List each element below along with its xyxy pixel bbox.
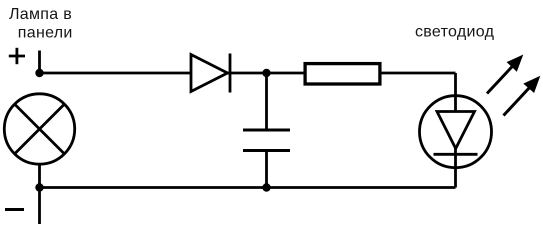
LED light arrow 2 [504, 76, 541, 116]
node D (junction at lamp bottom) [35, 183, 43, 191]
wire: right vertical (LED branch) [454, 73, 457, 188]
diode VD1 [191, 54, 230, 93]
label "Лампа в панели" [9, 6, 73, 42]
wire: bottom supply stub [38, 188, 41, 225]
resistor R1 [305, 64, 380, 84]
node B (junction bottom of capacitor) [262, 183, 270, 191]
wire: top horizontal rail [40, 72, 456, 75]
node C (junction at lamp top) [35, 69, 43, 77]
capacitor C1 [243, 73, 290, 188]
LED HL1 [420, 96, 492, 168]
node A (junction top of capacitor) [262, 69, 270, 77]
wire: bottom horizontal rail [40, 186, 456, 189]
svg-text:светодиод: светодиод [415, 23, 495, 40]
svg-text:Лампа в: Лампа в [9, 6, 72, 23]
plus terminal [9, 48, 25, 64]
wire: top supply stub [38, 51, 41, 74]
lamp EL1 (circle with X) [4, 94, 74, 164]
wire: lamp bottom lead [38, 164, 41, 188]
svg-text:панели: панели [18, 25, 73, 42]
minus terminal [5, 208, 24, 211]
LED light arrow 1 [487, 55, 523, 94]
